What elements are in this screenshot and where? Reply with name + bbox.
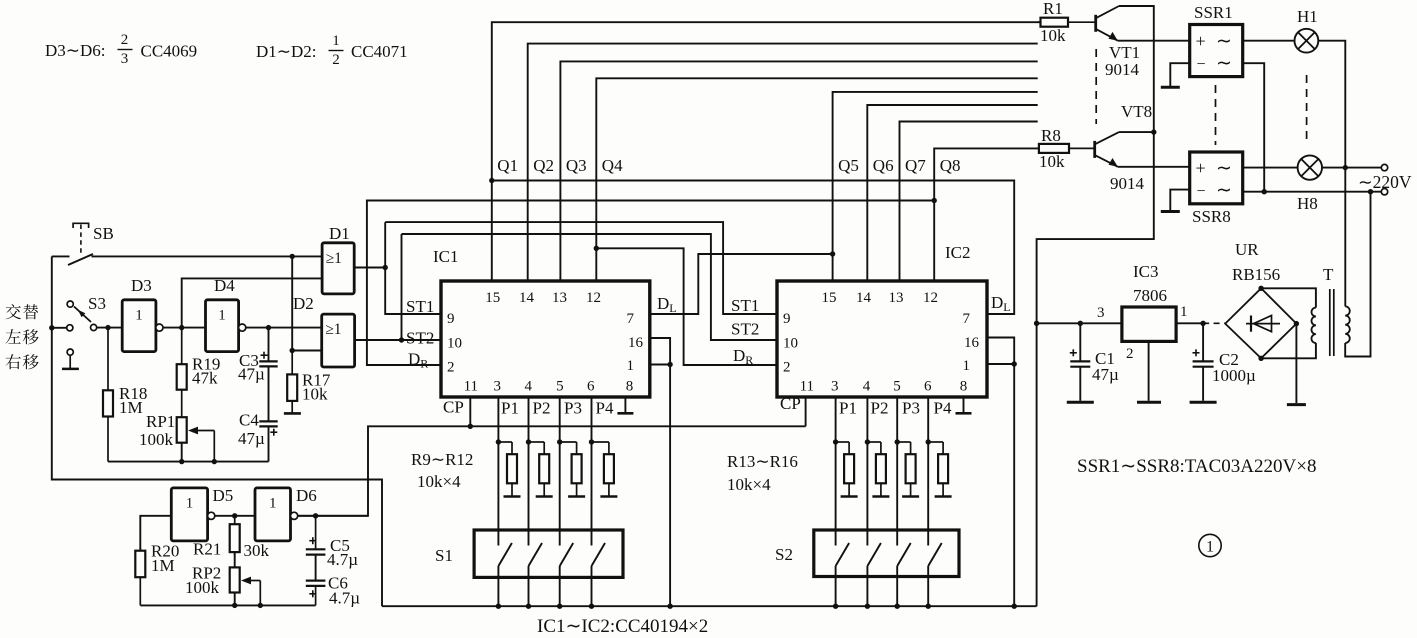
ground R16 — [935, 495, 952, 498]
wire Q6 output bus — [867, 105, 1037, 281]
wire R21 to RP2 — [234, 552, 236, 567]
op-amp IC2 CC40194 box — [777, 281, 987, 397]
svg-text:Q5: Q5 — [838, 156, 859, 175]
svg-text:9: 9 — [783, 311, 791, 327]
svg-text:CP: CP — [443, 398, 464, 417]
wire IC2 pin1 stub — [987, 363, 1014, 365]
wire IC1 P3 line — [559, 397, 561, 546]
switch SB pushbutton stem — [80, 225, 82, 255]
junction IC1 CP — [468, 424, 473, 429]
svg-text:S2: S2 — [775, 545, 793, 564]
svg-text:D2: D2 — [293, 294, 314, 313]
wire +6V rail — [1037, 322, 1122, 324]
wire RP2 wiper — [241, 577, 260, 606]
svg-text:P1: P1 — [501, 399, 519, 418]
resistor R15 10k — [897, 442, 915, 496]
wire D6 output to CP and C5 — [298, 515, 368, 517]
junction Q1 to IC2 DL branch — [489, 178, 494, 183]
wire IC1 P2 line lower — [528, 566, 530, 606]
wire IC2 P3 line lower — [896, 566, 898, 606]
junction D6 output to C5 — [313, 513, 318, 518]
junction P3 to supply bus — [895, 604, 900, 609]
resistor R20 1M — [135, 548, 145, 605]
svg-text:UR: UR — [1235, 240, 1259, 259]
junction P line R13 branch — [833, 439, 838, 444]
svg-text:47µ: 47µ — [238, 429, 265, 448]
svg-text:≥1: ≥1 — [325, 321, 341, 338]
wire SB output to D1 input1 — [92, 255, 323, 257]
ground IC2 pin8 — [956, 412, 972, 415]
wire IC2 P4 line lower — [927, 566, 929, 606]
svg-text:16: 16 — [628, 335, 644, 351]
svg-text:11: 11 — [800, 379, 814, 395]
svg-text:16: 16 — [964, 335, 980, 351]
wire Q1 output bus — [492, 22, 1041, 281]
ground C2 — [1190, 401, 1217, 404]
switch S1 lever 4 — [592, 543, 606, 566]
junction P line R9 branch — [496, 439, 501, 444]
wire Q4 to IC2 DR pin2 — [596, 248, 777, 365]
wire RP1 bottom to rc bottom line — [181, 443, 183, 462]
svg-text:1: 1 — [1206, 539, 1214, 556]
wire D4 output to D2 input1 — [246, 327, 322, 329]
switch S2 lever 2 — [867, 543, 881, 566]
svg-text:9: 9 — [447, 311, 455, 327]
svg-text:2: 2 — [783, 360, 791, 376]
svg-text:Q4: Q4 — [602, 156, 623, 175]
capacitor C1 47u — [1070, 323, 1091, 401]
op-amp D3 inverter — [122, 300, 163, 352]
svg-text:1000µ: 1000µ — [1212, 366, 1256, 385]
wire primary top to live — [1344, 168, 1346, 307]
svg-text:6: 6 — [924, 379, 932, 395]
svg-text:+: + — [1196, 31, 1206, 51]
svg-text:10k: 10k — [302, 385, 328, 404]
resistor R13 10k — [836, 442, 855, 496]
switch S1 lever 3 — [560, 543, 574, 566]
lamp H1 — [1295, 29, 1319, 53]
junction D3-D4 node feedback — [179, 325, 184, 330]
potentiometer RP1 100k — [177, 417, 187, 443]
svg-text:10: 10 — [783, 336, 798, 352]
transistor VT8 9014 — [1095, 132, 1119, 167]
svg-text:9014: 9014 — [1105, 60, 1140, 79]
svg-text:47µ: 47µ — [1092, 365, 1119, 384]
wire Q1 to IC2 DL pin7 — [492, 181, 1014, 315]
ground SSR1 — [1161, 86, 1180, 89]
op-amp IC1 CC40194 box — [441, 281, 650, 397]
wire IC1 P4 line — [591, 397, 593, 546]
svg-text:R21: R21 — [193, 540, 221, 559]
ground R13 — [841, 495, 858, 498]
junction P line R15 branch — [895, 439, 900, 444]
junction D2 output ST2 — [399, 337, 404, 342]
svg-text:CP: CP — [780, 394, 801, 413]
svg-text:D5: D5 — [213, 486, 234, 505]
svg-text:3: 3 — [1097, 305, 1105, 321]
svg-text:10k×4: 10k×4 — [727, 475, 771, 494]
svg-text:11: 11 — [464, 379, 478, 395]
wire H1 to live bus — [1318, 41, 1345, 168]
svg-text:4: 4 — [525, 379, 533, 395]
resistor R19 47k — [177, 328, 187, 418]
op-amp D4 inverter — [206, 300, 246, 352]
resistor R1 10k — [1038, 18, 1096, 27]
wire CP clock line — [298, 426, 806, 516]
svg-text:P3: P3 — [902, 399, 920, 418]
resistor R9 10k — [498, 442, 517, 496]
text note D3-D6 gate type — [45, 32, 197, 67]
resistor R10 10k — [529, 442, 550, 496]
junction rail to S3 left-shift contact — [49, 325, 54, 330]
resistor R16 10k — [928, 442, 948, 496]
switch S3 contact zuoyi pos — [67, 325, 73, 331]
wire SSR1 output1 to H1 — [1243, 40, 1295, 42]
wire IC1 P3 line lower — [559, 566, 561, 606]
svg-text:RP1: RP1 — [146, 412, 175, 431]
op-amp D6 inverter — [255, 488, 298, 541]
relay SSR1 box — [1190, 25, 1243, 77]
junction P line R14 branch — [865, 439, 870, 444]
junction +6V rail tap — [1034, 321, 1039, 326]
junction bus IC2 supply — [1012, 604, 1017, 609]
ground SSR8 — [1161, 210, 1180, 213]
wire C3 to C4 — [268, 366, 270, 421]
wire IC2 P2 line lower — [866, 566, 868, 606]
wire IC2 P1 line lower — [835, 566, 837, 606]
svg-text:D3∼D6:: D3∼D6: — [45, 41, 106, 60]
svg-text:SSR1: SSR1 — [1194, 3, 1233, 22]
svg-text:100k: 100k — [185, 578, 220, 597]
junction bus IC1 supply — [667, 604, 672, 609]
svg-text:9014: 9014 — [1110, 174, 1145, 193]
resistor R18 1M — [103, 328, 113, 462]
svg-text:C4: C4 — [239, 411, 259, 430]
svg-text:13: 13 — [552, 290, 567, 306]
wire SB left contact to rail — [52, 255, 70, 257]
junction live bus primary — [1343, 165, 1348, 170]
capacitor C2 1000u — [1193, 323, 1214, 401]
svg-text:S3: S3 — [88, 294, 106, 313]
junction RP2 wiper rail — [258, 603, 263, 608]
junction P1 to supply bus — [833, 604, 838, 609]
relay SSR8 box — [1190, 152, 1243, 204]
op-amp D5 inverter — [171, 488, 214, 541]
ground C1 — [1067, 401, 1094, 404]
wire ST2 vertical — [401, 234, 403, 340]
junction SB line to D2 branch — [290, 254, 295, 259]
junction Q4 to IC2 DR branch — [594, 246, 599, 251]
svg-text:−: − — [1197, 183, 1206, 200]
svg-text:12: 12 — [923, 290, 938, 306]
junction P line R11 branch — [557, 439, 562, 444]
svg-text:D1: D1 — [329, 224, 350, 243]
junction P line R16 branch — [926, 439, 931, 444]
lamp H8 — [1298, 155, 1322, 179]
wire IC1 pin8 ground stub — [624, 397, 626, 413]
text note D1-D2 gate type — [256, 33, 408, 68]
wire 7806 out to C2 — [1176, 322, 1203, 324]
switch S2 lever 3 — [897, 543, 911, 566]
svg-text:P4: P4 — [934, 399, 952, 418]
svg-text:1: 1 — [218, 307, 226, 323]
svg-text:1: 1 — [135, 307, 143, 323]
svg-text:∼: ∼ — [1216, 53, 1232, 74]
svg-text:47µ: 47µ — [238, 365, 265, 384]
switch S3 contact common pivot — [91, 324, 97, 330]
ground R12 — [600, 495, 617, 498]
ground R9 — [504, 495, 521, 498]
wire VT8 emitter to SSR8 — [1118, 166, 1190, 168]
svg-text:8: 8 — [626, 379, 634, 395]
wire Q3 output bus — [560, 61, 1037, 281]
junction RP1 bottom — [179, 459, 184, 464]
junction P3 to supply bus — [557, 604, 562, 609]
wire IC1 DL pin7 to Q5 — [650, 254, 833, 314]
wire C5 to C6 — [315, 555, 317, 581]
wire dashed SSR1-SSR8 repetition — [1215, 85, 1217, 145]
wire +V supply bottom bus — [382, 605, 1037, 607]
switch S2 box — [814, 530, 959, 577]
wire IC2 pin8 ground stub — [963, 397, 965, 413]
text figure number 1 — [1199, 534, 1221, 556]
wire RP1 wiper — [188, 427, 214, 462]
transistor VT1 9014 — [1096, 6, 1119, 41]
svg-text:14: 14 — [519, 290, 535, 306]
ground R10 — [536, 495, 553, 498]
svg-text:−: − — [1197, 56, 1206, 73]
svg-text:5: 5 — [556, 379, 564, 395]
switch S3 lever — [74, 307, 91, 323]
svg-text:10k: 10k — [1040, 26, 1066, 45]
svg-text:∼220V: ∼220V — [1358, 172, 1412, 192]
wire VT collectors to +V — [1037, 6, 1154, 606]
svg-text:6: 6 — [587, 379, 595, 395]
svg-text:1M: 1M — [119, 398, 143, 417]
svg-text:ST2: ST2 — [731, 320, 759, 339]
wire RP2 bottom — [234, 593, 236, 606]
svg-text:+: + — [1196, 158, 1206, 178]
junction SSR outputs neutral — [1262, 189, 1267, 194]
resistor R17 10k — [287, 351, 297, 413]
wire S3 common to D3 input — [97, 327, 123, 329]
svg-text:H8: H8 — [1297, 194, 1318, 213]
wire IC1 P4 line lower — [591, 566, 593, 606]
resistor R14 10k — [867, 442, 886, 496]
svg-text:ST2: ST2 — [406, 329, 434, 348]
svg-text:7: 7 — [963, 311, 971, 327]
wire IC2 P3 line — [896, 397, 898, 546]
wire IC2 P1 line — [835, 397, 837, 546]
inductor T core — [1329, 289, 1331, 356]
svg-text:RB156: RB156 — [1232, 265, 1280, 284]
ground 7806 — [1137, 401, 1161, 404]
potentiometer RP2 100k — [230, 567, 240, 592]
svg-text:SB: SB — [93, 224, 114, 243]
junction bridge bottom — [1258, 356, 1263, 361]
junction RP2 bottom rail — [232, 603, 237, 608]
svg-text:13: 13 — [889, 290, 904, 306]
svg-text:1: 1 — [1180, 304, 1188, 320]
wire dashed H1-H8 repetition — [1306, 75, 1308, 141]
switch SB pushbutton cap — [73, 223, 89, 228]
svg-text:1: 1 — [963, 358, 971, 374]
wire oscillator bottom rail — [140, 604, 315, 606]
wire SSR8 minus to ground — [1170, 190, 1189, 211]
svg-text:8: 8 — [960, 379, 968, 395]
wire neutral row to 220V terminal2 — [1243, 191, 1382, 193]
svg-text:T: T — [1323, 265, 1334, 284]
op-amp D2 OR gate — [322, 314, 355, 367]
svg-text:Q1: Q1 — [497, 156, 518, 175]
wire ST2 net D2 output to IC2 pin10 — [402, 234, 778, 340]
wire IC1 P1 line lower — [497, 566, 499, 606]
wire IC2 pin11 CP stub — [805, 397, 807, 426]
svg-text:CC4071: CC4071 — [351, 42, 408, 61]
svg-text:∼: ∼ — [1216, 180, 1232, 201]
ground R15 — [902, 495, 919, 498]
switch SB lever — [68, 254, 93, 265]
wire 7806 gnd — [1148, 341, 1150, 400]
wire IC1 P1 line — [497, 397, 499, 546]
junction bridge right — [1294, 321, 1299, 326]
svg-text:∼: ∼ — [1216, 158, 1232, 179]
wire dashed VT1-VT8 repetition — [1095, 49, 1097, 124]
svg-text:15: 15 — [822, 290, 837, 306]
capacitor C6 4.7u — [306, 581, 326, 606]
svg-text:S1: S1 — [435, 546, 453, 565]
wire Q7 output bus — [900, 122, 1038, 282]
svg-text:Q6: Q6 — [873, 156, 894, 175]
wire SSR1 output2 to neutral — [1243, 63, 1265, 192]
wire SB to D2 input2 and R17 — [292, 256, 322, 350]
junction P1 to supply bus — [496, 604, 501, 609]
wire IC1 pin16 supply stub — [650, 338, 670, 606]
wire IC1 pin11 CP stub — [469, 397, 471, 426]
wire bridge top to secondary — [1261, 288, 1316, 307]
switch S1 lever 1 — [498, 543, 512, 566]
svg-text:R8: R8 — [1041, 126, 1061, 145]
svg-text:2: 2 — [447, 360, 455, 376]
svg-text:Q8: Q8 — [940, 156, 961, 175]
wire left +V rail — [52, 256, 382, 606]
svg-text:R1: R1 — [1043, 0, 1063, 18]
svg-text:100k: 100k — [139, 430, 174, 449]
wire SSR1 minus to ground — [1170, 63, 1189, 86]
wire SSR8 output1 to H8 — [1243, 167, 1298, 169]
regulator IC3 7806 box — [1122, 307, 1176, 341]
op-amp D1 OR gate — [322, 243, 354, 294]
wire Q2 output bus — [528, 44, 1038, 281]
wire bridge right to ground — [1295, 324, 1297, 403]
wire primary bottom to neutral — [1345, 192, 1370, 357]
wire VT8 collector — [1119, 131, 1154, 133]
wire D5 output to D6 input — [215, 515, 255, 517]
svg-text:1: 1 — [269, 495, 277, 511]
svg-text:2: 2 — [1126, 346, 1134, 362]
junction P4 to supply bus — [589, 604, 594, 609]
terminal 220V N — [1381, 189, 1387, 195]
svg-text:Q7: Q7 — [905, 156, 926, 175]
wire Q5 output bus — [833, 92, 1038, 281]
switch S1 lever 2 — [529, 543, 543, 566]
svg-text:1: 1 — [627, 358, 635, 374]
svg-text:3: 3 — [831, 379, 839, 395]
junction neutral to primary — [1368, 189, 1373, 194]
wire H8 to 220V terminal1 — [1322, 167, 1381, 169]
svg-text:P1: P1 — [839, 399, 857, 418]
junction bridge top — [1258, 286, 1263, 291]
svg-text:10k: 10k — [1039, 152, 1065, 171]
wire VT1 emitter to SSR1 — [1118, 40, 1190, 42]
wire IC2 pin16 supply stub — [987, 338, 1014, 607]
wire dashed C2 to bridge — [1203, 322, 1225, 324]
svg-text:47k: 47k — [192, 369, 218, 388]
ground R14 — [872, 495, 889, 498]
svg-text:IC1∼IC2:CC40194×2: IC1∼IC2:CC40194×2 — [537, 616, 708, 637]
svg-text:15: 15 — [485, 290, 500, 306]
junction Q8 to IC1 DR line — [932, 198, 937, 203]
junction IC1 pin1-pin16 — [667, 362, 672, 367]
junction D4 output to C3 — [266, 325, 271, 330]
svg-text:VT8: VT8 — [1121, 102, 1152, 121]
svg-text:SSR1∼SSR8:TAC03A220V×8: SSR1∼SSR8:TAC03A220V×8 — [1077, 456, 1316, 477]
junction VT8 collector — [1151, 129, 1156, 134]
junction Q5 to IC1 DL line — [830, 251, 835, 256]
svg-text:4.7µ: 4.7µ — [329, 589, 360, 608]
svg-text:1: 1 — [332, 33, 340, 49]
capacitor C5 4.7u — [306, 516, 326, 555]
junction S3 common R18 branch — [105, 325, 110, 330]
svg-text:R13∼R16: R13∼R16 — [727, 452, 798, 471]
wire D1 output to ST1 node — [354, 267, 385, 269]
svg-text:1: 1 — [186, 495, 194, 511]
svg-text:4.7µ: 4.7µ — [327, 550, 358, 569]
text mode label jiao-ti (alternate) — [6, 304, 38, 319]
switch S3 position ground stub — [62, 356, 79, 369]
svg-text:≥1: ≥1 — [326, 250, 342, 267]
svg-text:3: 3 — [494, 379, 502, 395]
svg-text:5: 5 — [893, 379, 901, 395]
wire IC1 P2 line — [528, 397, 530, 546]
capacitor C3 47u — [259, 328, 277, 367]
svg-text:7: 7 — [627, 311, 635, 327]
wire rc bottom line — [108, 461, 269, 463]
junction P4 to supply bus — [926, 604, 931, 609]
svg-text:P2: P2 — [533, 399, 551, 418]
wire bridge bottom to secondary — [1261, 343, 1316, 358]
junction D1 output ST1 — [383, 265, 388, 270]
resistor R11 10k — [560, 442, 582, 496]
junction P line R12 branch — [589, 439, 594, 444]
wire Q8 to IC1 DR pin2 — [367, 201, 934, 366]
wire D3 output to D4 input — [163, 327, 206, 329]
wire IC2 P4 line — [927, 397, 929, 546]
junction C1 to rail — [1078, 321, 1083, 326]
svg-text:R9∼R12: R9∼R12 — [411, 450, 473, 469]
junction C2 to out — [1200, 321, 1205, 326]
svg-text:7806: 7806 — [1133, 286, 1167, 305]
svg-text:10k×4: 10k×4 — [417, 472, 461, 491]
svg-text:IC2: IC2 — [945, 243, 971, 262]
svg-text:10: 10 — [447, 336, 462, 352]
terminal 220V L — [1381, 164, 1387, 170]
wire D2 output to IC1 pin10 ST2 — [355, 339, 441, 341]
text mode label zuo-yi (shift left) — [6, 329, 39, 344]
junction D5 out to R21 — [232, 513, 237, 518]
svg-text:D1∼D2:: D1∼D2: — [256, 42, 317, 61]
junction P2 to supply bus — [865, 604, 870, 609]
